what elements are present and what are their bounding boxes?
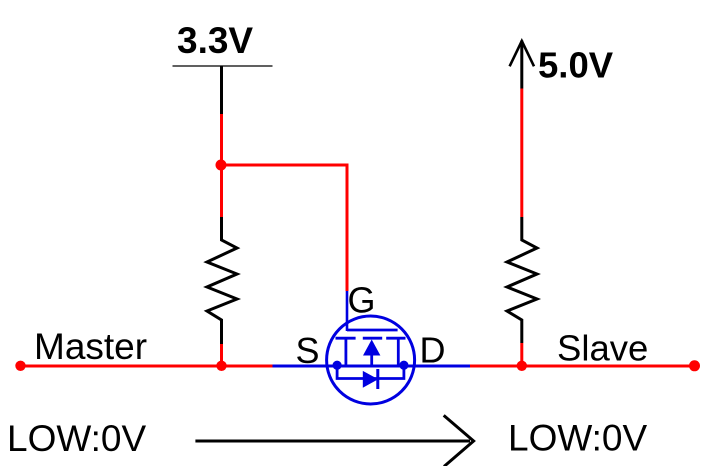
svg-text:Slave: Slave: [557, 328, 648, 369]
transistor Q1 gate bar: [347, 329, 398, 332]
wire red slave line: [470, 365, 695, 368]
resistor R2 pull-up 5.0V: [507, 217, 537, 343]
direction arrow head: [444, 415, 474, 466]
transistor Q1 gate lead blue: [346, 291, 349, 331]
wire black from 3.3V rail down: [220, 66, 223, 116]
node master end: [15, 361, 25, 371]
transistor Q1 substrate arrow: [363, 340, 380, 356]
svg-text:LOW:0V: LOW:0V: [7, 418, 146, 459]
node source dot: [333, 361, 342, 370]
wire red gate branch horizontal: [222, 164, 348, 167]
node drain dot: [399, 361, 408, 370]
svg-text:3.3V: 3.3V: [177, 20, 253, 61]
svg-text:G: G: [348, 280, 376, 321]
svg-text:LOW:0V: LOW:0V: [508, 418, 647, 459]
resistor R1 pull-up 3.3V: [207, 217, 237, 344]
node junction to gate: [216, 160, 227, 171]
node slave end: [689, 360, 700, 371]
wire red master line: [21, 365, 273, 368]
transistor Q1 drain contact: [397, 338, 400, 366]
node slave junction: [517, 361, 527, 371]
transistor Q1 channel segment right: [386, 337, 405, 340]
power arrow 5.0V shaft black: [520, 41, 523, 89]
svg-text:5.0V: 5.0V: [538, 44, 614, 85]
transistor Q1 channel segment middle: [363, 337, 382, 340]
node master junction: [216, 361, 226, 371]
wire red lower right vertical: [520, 343, 523, 366]
wire red gate branch vertical: [346, 164, 349, 292]
transistor Q1 source contact: [344, 338, 347, 366]
power rail bar 3.3V: [173, 65, 273, 67]
transistor Q1 channel segment left: [336, 337, 356, 340]
transistor Q1 body diode loop: [337, 366, 404, 379]
wire red lower left vertical: [220, 344, 223, 366]
svg-text:D: D: [420, 330, 446, 371]
diode D1 body diode: [363, 371, 378, 388]
wire blue source-drain: [273, 365, 471, 368]
power arrow 5.0V head: [510, 41, 534, 66]
wire red upper right vertical: [520, 89, 523, 218]
wire red upper left vertical: [220, 114, 223, 217]
svg-text:Master: Master: [34, 326, 147, 367]
direction arrow shaft: [195, 440, 470, 443]
transistor Q1 MOSFET body circle: [327, 316, 415, 404]
